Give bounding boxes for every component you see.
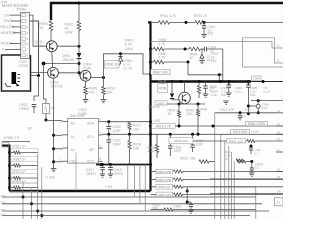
wire R990 to zener <box>119 63 121 65</box>
node rail 263 <box>262 80 265 83</box>
vertical drop a <box>127 165 129 192</box>
wire CRT loop inner <box>151 42 284 49</box>
node C942 tap a <box>247 105 250 108</box>
wire Q901 collector to node <box>57 45 79 47</box>
bus tap 2 <box>31 189 33 220</box>
svg-text:R987 56R: R987 56R <box>157 178 172 182</box>
node R918 top <box>128 133 131 136</box>
svg-text:1K: 1K <box>39 26 44 30</box>
wire CRT left leg <box>243 38 283 67</box>
svg-text:4.7K: 4.7K <box>159 56 167 60</box>
bus tap 3 <box>37 154 39 219</box>
bottom bus line 2 <box>2 203 262 205</box>
bottom bus line 4 <box>2 215 250 217</box>
wire rail to IC pin3 <box>54 134 63 136</box>
svg-text:10K: 10K <box>186 112 193 116</box>
resistor R914 <box>159 21 170 25</box>
node SDA cap <box>107 120 110 123</box>
svg-text:R990 10: R990 10 <box>106 63 119 67</box>
svg-text:21: 21 <box>277 200 281 204</box>
node SDA ext b <box>212 125 215 128</box>
capacitor C906 <box>205 82 207 86</box>
svg-text:100P: 100P <box>113 129 122 133</box>
shield box <box>2 55 31 91</box>
node rail 181 <box>180 80 183 83</box>
node spark bottom <box>257 111 260 114</box>
wire down from node <box>34 76 39 102</box>
svg-text:PWB: PWB <box>17 7 26 12</box>
node C942 tap b <box>247 112 250 115</box>
diode D901 <box>78 46 80 53</box>
svg-text:ch 6733: ch 6733 <box>50 84 63 88</box>
node rail 148.8 <box>52 147 55 150</box>
node em row a <box>178 103 181 106</box>
resistor R984 <box>151 171 157 173</box>
vertical drop d <box>144 165 146 212</box>
svg-text:470: 470 <box>89 90 95 94</box>
resistor inside shield box <box>7 86 11 88</box>
svg-text:47P: 47P <box>262 106 268 110</box>
boxed label D903 <box>155 101 167 105</box>
bottom bus line 3 <box>2 210 269 212</box>
connector stub box <box>2 143 9 148</box>
node rail 199 <box>198 80 201 83</box>
power rail horizontal <box>151 80 252 82</box>
bus tap 4 <box>41 167 43 219</box>
connector P901 <box>21 13 30 59</box>
node row B corner <box>187 61 190 64</box>
svg-text:A0: A0 <box>71 122 75 126</box>
node row1 a <box>185 21 188 24</box>
svg-text:LR902 1P: LR902 1P <box>12 158 26 162</box>
node top supply bus <box>51 3 283 20</box>
node rail 220 <box>219 80 222 83</box>
node SCL ext a <box>169 133 172 136</box>
filter LR904 <box>8 186 11 189</box>
svg-text:13: 13 <box>277 109 281 113</box>
resistor R941 box <box>226 139 245 143</box>
wire R914-R923 <box>170 21 196 23</box>
node 43.5/63.5 <box>42 62 46 66</box>
resistor R983 <box>151 186 157 188</box>
right edge pin stubs <box>276 112 283 114</box>
resistor R945 box <box>169 138 193 144</box>
node rail 135.5 <box>52 134 55 137</box>
wire shield box to Q902 base <box>31 72 48 74</box>
svg-text:1/4W: 1/4W <box>125 47 134 51</box>
svg-text:R916 4.7K: R916 4.7K <box>156 124 172 128</box>
svg-text:100P: 100P <box>113 142 122 146</box>
diode D906 <box>201 49 203 54</box>
wire CRT loop outer <box>243 38 283 63</box>
svg-text:ch 16: ch 16 <box>124 67 132 71</box>
node bottom right <box>250 160 253 163</box>
capacitor C921 <box>108 134 110 139</box>
svg-text:(50): (50) <box>208 32 214 36</box>
zener D980 <box>120 54 122 56</box>
node em row b <box>197 103 200 106</box>
svg-text:GND: GND <box>4 19 13 23</box>
vertical feed 1 <box>214 113 216 219</box>
row R941 ext <box>169 140 247 142</box>
wire R940 right <box>164 48 189 50</box>
svg-text:R945: R945 <box>200 108 208 112</box>
svg-text:19: 19 <box>277 175 281 179</box>
wire to IC pin4 <box>46 119 63 121</box>
svg-text:4.7K: 4.7K <box>148 150 156 154</box>
wire Q901 emitter down to Q902 <box>51 52 54 68</box>
svg-text:VCC: VCC <box>87 159 95 163</box>
svg-text:LR903 1P: LR903 1P <box>12 170 26 174</box>
node Q902 collector <box>78 71 81 74</box>
node spark gap <box>257 99 260 102</box>
svg-text:R945 100: R945 100 <box>174 139 188 143</box>
node rail 472B stub <box>161 80 164 83</box>
node T7 start <box>100 163 103 166</box>
svg-text:ID2: ID2 <box>1 208 6 212</box>
vertical feed 4 <box>228 146 230 219</box>
resistor R9xx below rail <box>198 82 200 86</box>
node row A mid <box>184 48 187 51</box>
wire row B <box>151 61 154 63</box>
svg-text:1N4148: 1N4148 <box>148 105 160 109</box>
svg-text:1/4W: 1/4W <box>65 30 74 34</box>
capacitor C920 <box>108 122 110 126</box>
node SCL ext b <box>191 133 194 136</box>
svg-text:R983 1K: R983 1K <box>158 185 171 189</box>
wire Q905 emitter row <box>161 103 205 105</box>
resistor R946 zig <box>236 159 244 162</box>
wire base node left <box>44 63 80 65</box>
node bus R902 <box>78 2 81 5</box>
svg-text:0.1: 0.1 <box>255 151 260 155</box>
resistor R926 box <box>231 130 250 134</box>
transistor Q902 <box>48 67 59 78</box>
jumper P901 link <box>43 104 50 114</box>
svg-text:R908: R908 <box>159 80 167 84</box>
svg-text:C913: C913 <box>244 108 252 112</box>
wire Q905 collector <box>184 82 186 93</box>
wire SDA <box>103 121 151 123</box>
svg-text:R914 4.7K: R914 4.7K <box>160 14 177 18</box>
resistor R941 zig <box>247 139 255 142</box>
svg-text:LR901 1P: LR901 1P <box>12 145 26 149</box>
svg-text:LR904 1P: LR904 1P <box>12 180 26 184</box>
transistor Q901 <box>46 41 57 52</box>
svg-text:R947 10R: R947 10R <box>153 70 168 74</box>
svg-text:+ B1: + B1 <box>105 185 113 189</box>
svg-text:C912 47P: C912 47P <box>220 108 235 112</box>
node ladder b <box>186 201 189 204</box>
wire SCL <box>103 133 151 135</box>
svg-text:ch: ch <box>225 157 229 161</box>
wire collector up <box>104 54 151 78</box>
bottom right resistor <box>237 160 246 163</box>
wire spark top <box>251 100 283 102</box>
svg-text:OPEN: OPEN <box>19 64 29 68</box>
svg-text:0.1U: 0.1U <box>264 89 271 93</box>
svg-text:R986 OPEN: R986 OPEN <box>248 122 266 126</box>
node SCL cap <box>107 133 110 136</box>
wire C912 row <box>215 112 276 114</box>
pin box 21 <box>275 198 283 206</box>
resistor R908 box <box>158 84 168 93</box>
capacitor C942 <box>247 82 249 85</box>
wire right row 1 <box>210 178 283 180</box>
wire LR header <box>2 141 30 143</box>
capacitor C904 series <box>203 47 205 52</box>
wire stub down <box>218 75 220 82</box>
svg-text:C945: C945 <box>35 44 43 48</box>
wire R950 right <box>164 61 188 63</box>
wire Q904 collector <box>91 77 104 79</box>
transistor Q903 blob <box>12 72 17 84</box>
svg-text:100: 100 <box>190 157 196 161</box>
svg-text:0.089: 0.089 <box>79 112 88 116</box>
node bus row C <box>149 73 152 76</box>
node base junction <box>78 62 81 65</box>
wire node down to P-link <box>44 64 47 104</box>
wire SDA ext <box>151 125 284 127</box>
resistor R990 box <box>105 61 120 69</box>
vertical feed 3 <box>224 141 226 219</box>
wire tap a <box>248 105 256 107</box>
spark gap G1 <box>256 104 260 108</box>
wire row B down-right <box>188 62 223 75</box>
capacitor C902 <box>32 104 37 106</box>
resistor R903 <box>50 20 52 21</box>
svg-text:A1: A1 <box>71 135 75 139</box>
wire right row 2 <box>210 186 256 188</box>
svg-text:C 990: C 990 <box>46 176 55 180</box>
svg-text:ID4: ID4 <box>1 194 6 198</box>
vertical drop c <box>139 165 141 204</box>
svg-text:5V: 5V <box>5 13 10 17</box>
node rail 172 <box>171 80 174 83</box>
svg-text:14: 14 <box>277 122 281 126</box>
wire shield box node <box>31 75 39 77</box>
capacitor C940 <box>203 22 205 25</box>
svg-text:1R: 1R <box>28 127 33 131</box>
svg-text:A2: A2 <box>71 148 75 152</box>
node D901 top <box>78 45 81 48</box>
svg-text:ID1: ID1 <box>1 212 6 216</box>
svg-text:R984 56R: R984 56R <box>157 170 172 174</box>
resistor R949 <box>189 47 201 51</box>
node T7 end <box>149 163 152 166</box>
svg-text:100P: 100P <box>196 143 205 147</box>
filter LR901 <box>8 151 11 154</box>
wire rail to IC pin1 <box>54 161 63 163</box>
IC pin stubs left <box>63 121 68 123</box>
wire R949 right <box>201 48 205 50</box>
node rail 248 <box>247 80 250 83</box>
wire C904 right <box>207 48 223 50</box>
vertical feed 5 <box>231 152 233 219</box>
vertical drop b <box>134 165 136 198</box>
svg-text:+C(0): +C(0) <box>251 130 259 134</box>
svg-text:DA: DA <box>277 190 281 194</box>
svg-text:LR9E1 1P: LR9E1 1P <box>4 136 20 140</box>
svg-text:4.7K: 4.7K <box>159 42 167 46</box>
resistor R923 <box>195 21 205 25</box>
bus tap 1 <box>22 182 24 219</box>
bottom bus line 1 <box>2 196 256 198</box>
node gnd bus b <box>109 163 112 166</box>
capacitor C917 open <box>102 165 104 168</box>
wire rail to IC pin2 <box>54 148 63 150</box>
node zener tap <box>119 52 122 55</box>
node bus row B <box>149 61 152 64</box>
wire top row <box>152 21 159 23</box>
svg-text:OPEN: OPEN <box>19 107 29 111</box>
resistor R944 <box>197 104 199 110</box>
wire ladder link <box>186 187 188 202</box>
svg-text:1N4148: 1N4148 <box>62 58 74 62</box>
resistor R947 box <box>151 70 170 75</box>
wire P-link down <box>45 114 47 121</box>
resistor R984 <box>151 193 157 195</box>
resistor R987 <box>151 179 157 181</box>
node ladder a <box>186 190 189 193</box>
vertical feed 2 <box>220 134 222 219</box>
boxed label C980 <box>252 76 262 80</box>
node SDA ext bus <box>149 125 152 128</box>
svg-text:0.1U: 0.1U <box>235 89 242 93</box>
svg-text:R941 100: R941 100 <box>229 139 243 143</box>
stub vertical x76 <box>75 153 77 192</box>
node P-link bottom <box>45 119 48 122</box>
IC U901 24LC08 <box>68 118 99 163</box>
ground Q902 rail <box>51 168 57 170</box>
svg-text:0.1: 0.1 <box>255 166 260 170</box>
capacitor C984 <box>187 201 191 203</box>
vertical feed 6 <box>233 162 235 220</box>
capacitor C918 open <box>110 165 112 168</box>
svg-text:17: 17 <box>277 148 281 152</box>
node Q904 collector <box>102 76 105 79</box>
svg-text:12: 12 <box>277 59 281 63</box>
wire R923 right <box>205 21 283 23</box>
ground mid right <box>223 100 229 102</box>
node rail 229 <box>228 80 231 83</box>
resistor R943 <box>156 134 158 144</box>
node row B T3 <box>218 73 221 76</box>
svg-text:472B: 472B <box>159 87 166 91</box>
node gnd bus a <box>101 163 104 166</box>
node rail 161.8 <box>52 160 55 163</box>
wire row A <box>151 48 154 50</box>
resistor R925 <box>199 160 209 163</box>
svg-text:15: 15 <box>277 130 281 134</box>
wire SCL ext <box>151 133 284 135</box>
resistor R902 <box>78 3 80 21</box>
svg-text:OPEN: OPEN <box>114 172 124 176</box>
svg-text:18: 18 <box>277 168 281 172</box>
svg-text:OPEN: OPEN <box>86 172 96 176</box>
svg-text:SCL: SCL <box>87 135 94 139</box>
IC pin stubs right <box>98 121 102 123</box>
resistor R986 box <box>246 121 268 125</box>
svg-text:C945: C945 <box>83 66 91 70</box>
resistor R909 <box>85 81 87 86</box>
svg-text:R923 1K: R923 1K <box>194 14 208 18</box>
svg-text:0.1U: 0.1U <box>174 208 181 212</box>
svg-text:11: 11 <box>277 44 280 48</box>
node bus row A <box>149 48 152 51</box>
node SCL ext c <box>197 133 200 136</box>
ground bus under IC <box>96 164 151 166</box>
svg-text:R984 100: R984 100 <box>157 193 171 197</box>
capacitor C922 <box>250 146 252 148</box>
svg-text:2.2K: 2.2K <box>211 93 218 97</box>
capacitor C912 <box>239 113 241 116</box>
resistor R950 <box>154 60 165 64</box>
node r941 <box>250 145 253 148</box>
svg-text:P9: P9 <box>51 107 55 111</box>
filter LR903 <box>8 177 11 180</box>
node SCL ext bus <box>149 133 152 136</box>
resistor R942 <box>178 104 180 111</box>
capacitor C916 <box>169 134 171 145</box>
svg-text:WP: WP <box>89 148 95 152</box>
svg-text:16: 16 <box>277 137 281 141</box>
wire C984 down <box>190 207 192 210</box>
transistor Q904 <box>80 70 91 81</box>
node SDA bus <box>149 120 152 123</box>
svg-text:D903: D903 <box>157 101 165 105</box>
node SDA ext c <box>178 125 181 128</box>
svg-text:50V: 50V <box>250 93 256 97</box>
svg-text:R925: R925 <box>180 157 188 161</box>
bottom dark bus <box>10 190 151 192</box>
svg-text:50V: 50V <box>221 93 227 97</box>
svg-text:R926 56R: R926 56R <box>233 130 248 134</box>
svg-text:10M: 10M <box>133 146 140 150</box>
svg-text:20K: 20K <box>107 90 114 94</box>
capacitor C941 <box>228 82 230 85</box>
wire pin2 to shield box node <box>30 21 39 76</box>
wire row A corner down <box>222 49 224 82</box>
capacitor C917b <box>192 134 194 144</box>
left dark bus <box>2 146 10 192</box>
bus vertical main <box>148 22 151 191</box>
node C912 <box>239 111 242 114</box>
wire right row 3 <box>210 193 276 195</box>
diode D903 <box>171 82 173 94</box>
resistor R918 <box>129 134 131 140</box>
resistor R910 <box>103 78 105 87</box>
svg-text:100: 100 <box>133 127 139 131</box>
svg-text:C980: C980 <box>253 77 261 81</box>
resistor R940 <box>154 47 165 51</box>
svg-text:16V: 16V <box>211 59 218 63</box>
svg-text:100P: 100P <box>174 149 183 153</box>
svg-text:ID3: ID3 <box>1 201 6 205</box>
filter LR902 <box>8 164 11 167</box>
capacitor C920b <box>251 162 253 168</box>
wire pin1 to Q901 base <box>30 15 47 46</box>
svg-text:SDA: SDA <box>87 122 95 126</box>
node C940 <box>203 21 206 24</box>
transistor Q905 <box>179 92 191 104</box>
svg-text:UPD: UPD <box>154 119 161 123</box>
wire Q902 emitter rail <box>53 78 55 168</box>
resistor R917 <box>129 121 131 124</box>
node 38.5/75.5 <box>37 74 40 77</box>
resistor R916 box <box>152 124 176 129</box>
wire Q902 collector <box>58 72 79 74</box>
